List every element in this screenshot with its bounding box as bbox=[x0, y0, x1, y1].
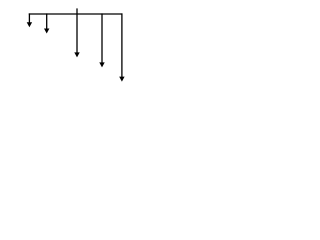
arrow 1 head bbox=[27, 22, 32, 27]
arrow 3 head bbox=[74, 52, 79, 57]
arrow 1 stem bbox=[28, 13, 30, 22]
horizontal timeline bbox=[29, 13, 123, 15]
arrow 5 head bbox=[119, 77, 124, 82]
arrow 4 head bbox=[99, 62, 104, 67]
arrow 3 stem with tick above line bbox=[76, 8, 78, 52]
arrow 2 head bbox=[44, 29, 49, 34]
arrow 2 stem bbox=[46, 13, 48, 29]
arrow 5 stem bbox=[121, 13, 123, 77]
arrow 4 stem bbox=[101, 13, 103, 62]
